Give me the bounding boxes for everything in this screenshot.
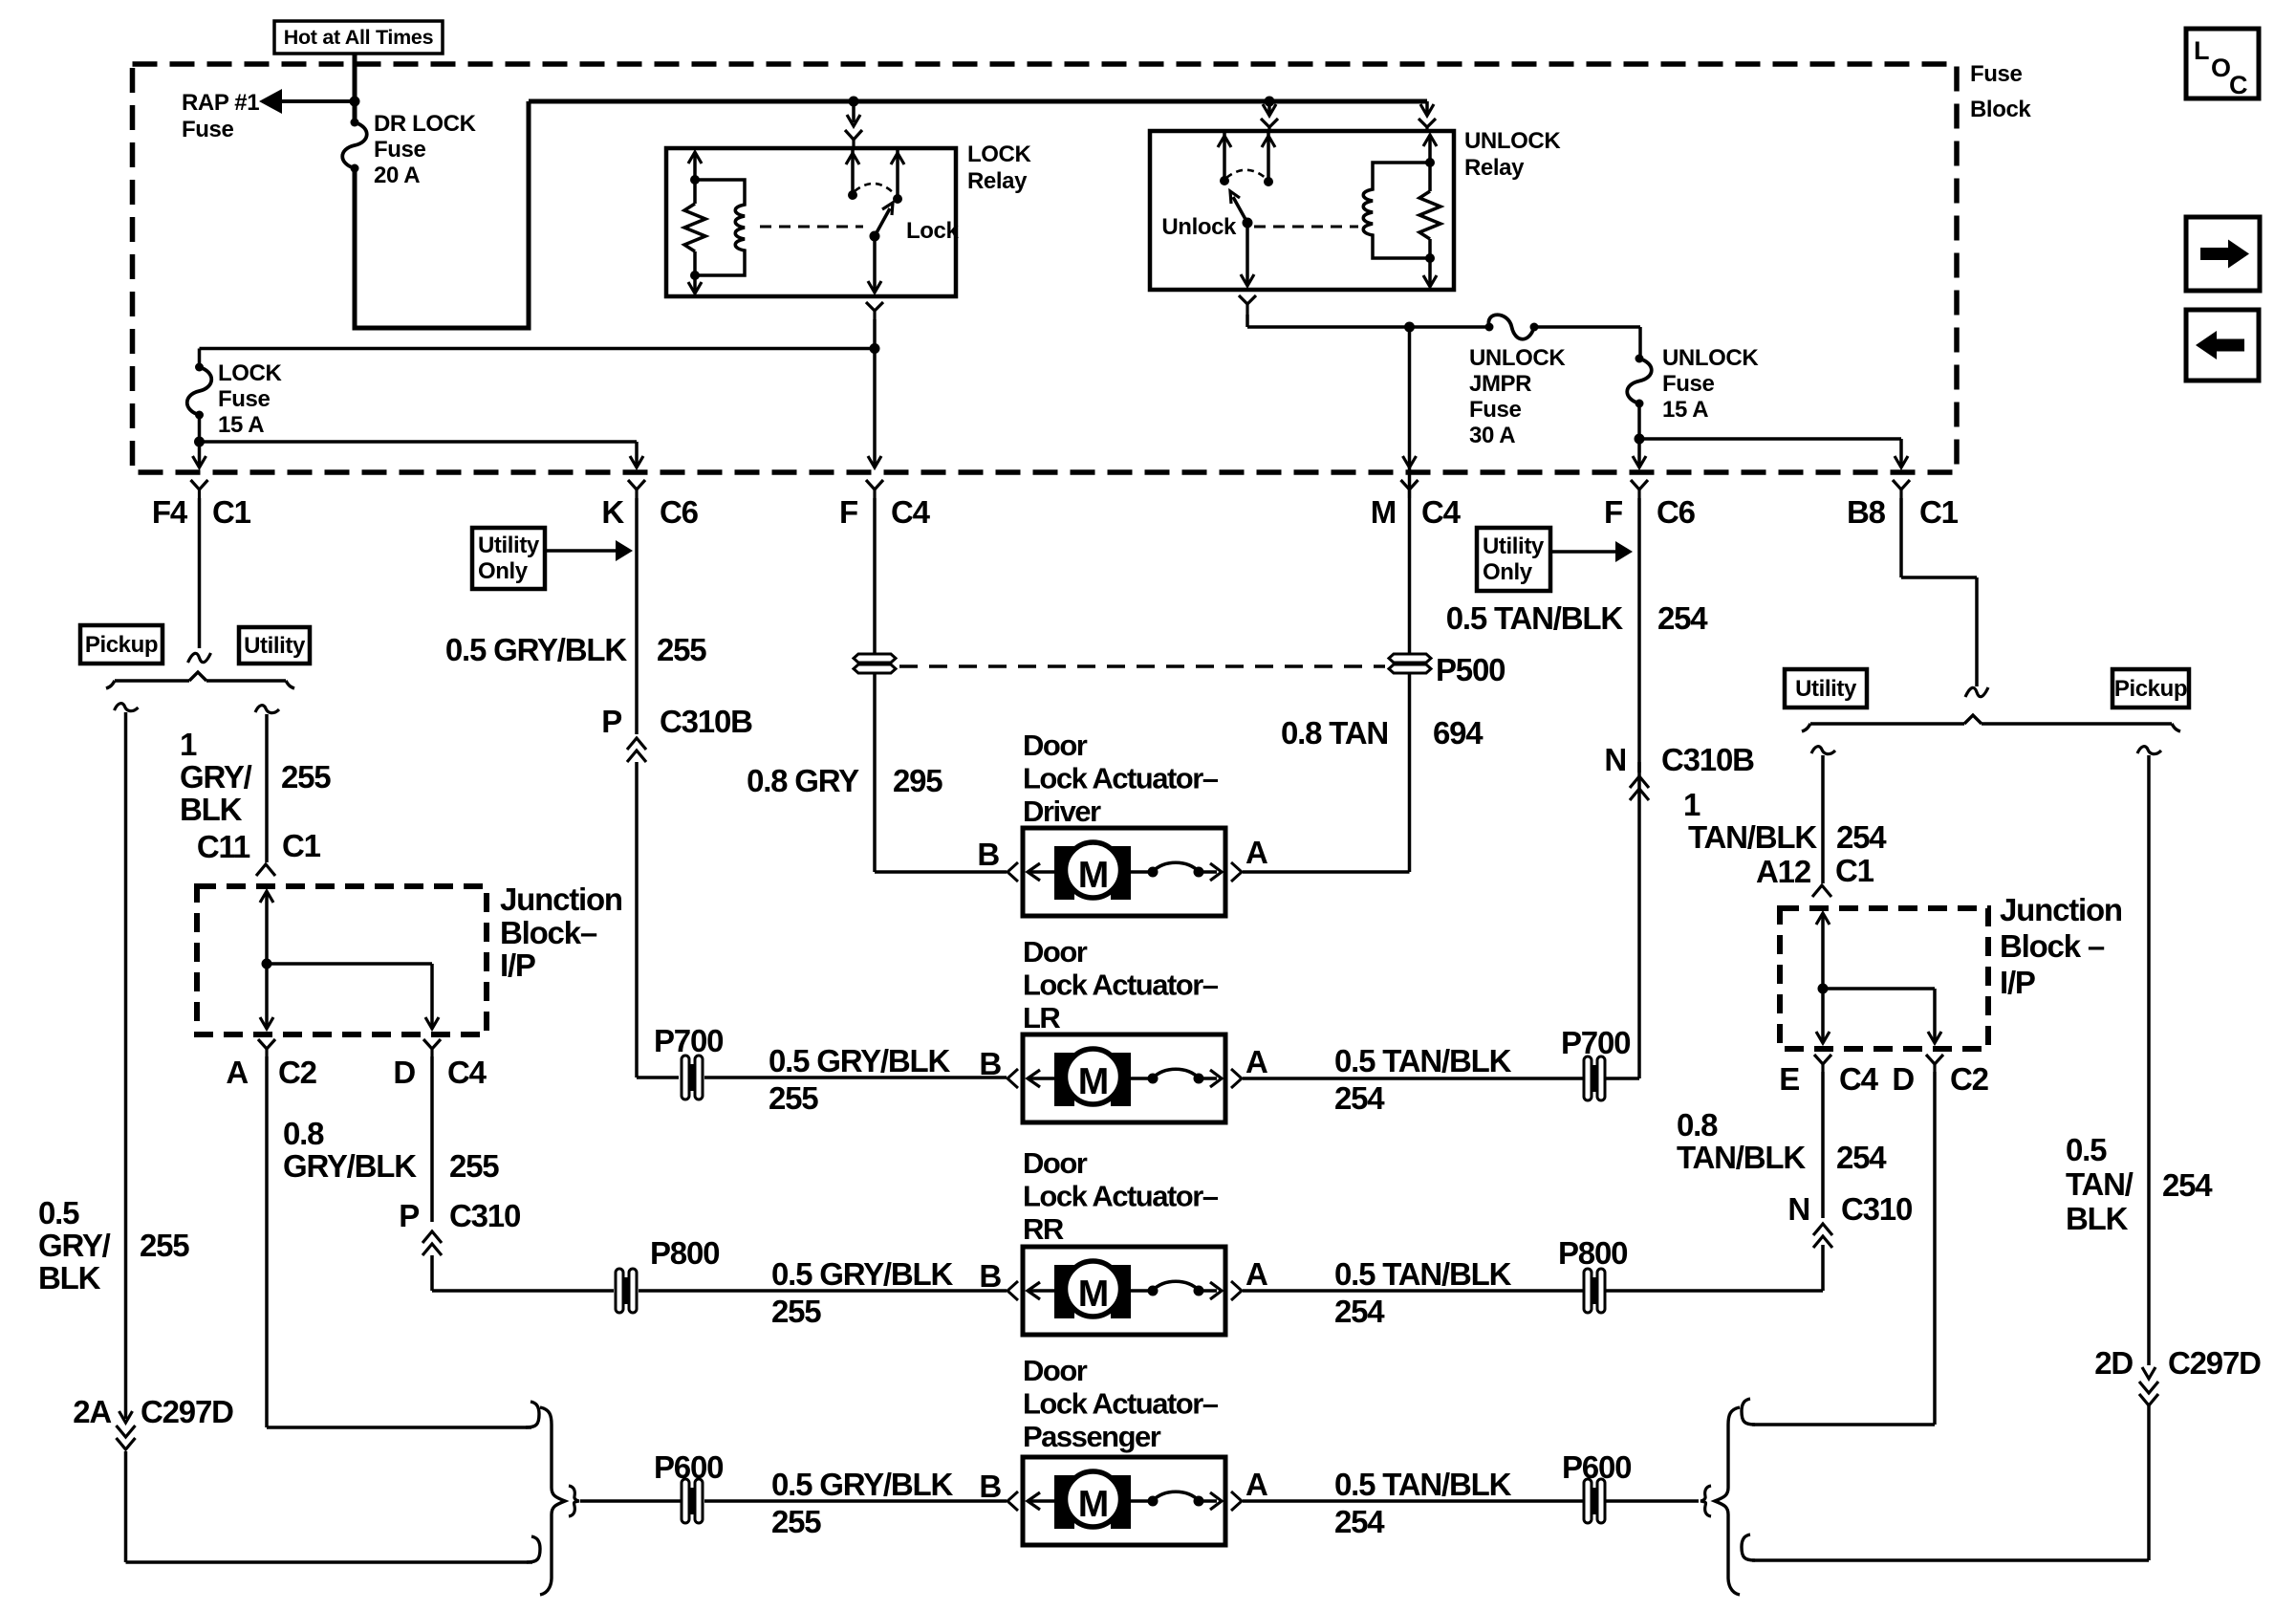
svg-text:2D: 2D xyxy=(2094,1345,2133,1381)
label: 0.5 TAN/BLK 254 (RR) xyxy=(1334,1256,1512,1329)
svg-text:Only: Only xyxy=(478,558,529,584)
svg-text:M: M xyxy=(1371,494,1396,530)
wire: F4 C1 down to split xyxy=(198,498,202,648)
svg-text:255: 255 xyxy=(449,1148,499,1184)
label: LOCK Fuse 15 A xyxy=(218,360,282,438)
svg-text:C11: C11 xyxy=(197,829,250,864)
node: junction block split (right) xyxy=(1818,984,1829,994)
svg-text:0.5 TAN/BLK: 0.5 TAN/BLK xyxy=(1334,1256,1512,1292)
svg-text:B: B xyxy=(979,1469,1001,1504)
connector C297D double chevron (right) xyxy=(2139,1382,2158,1405)
wire break squiggle (right split) xyxy=(1965,687,1988,697)
svg-text:Lock Actuator–: Lock Actuator– xyxy=(1023,762,1219,795)
svg-text:Pickup: Pickup xyxy=(2114,676,2187,702)
svg-text:694: 694 xyxy=(1433,715,1484,751)
lock relay switch arm xyxy=(870,203,894,242)
connector C310 double chevron (right) xyxy=(1813,1224,1832,1248)
label: F C4 xyxy=(839,494,931,530)
label: Unlock (switch position) xyxy=(1161,214,1237,240)
label: 0.5 TAN/BLK 254 (pickup right) xyxy=(2066,1132,2213,1236)
label: C11 C1 xyxy=(197,828,321,864)
wire: E C4 down to C310 xyxy=(1821,1072,1825,1218)
wire: lock feed horizontal xyxy=(200,347,876,351)
label: B8 C1 xyxy=(1847,494,1959,530)
label: 0.5 GRY/BLK 255 (RR) xyxy=(771,1256,953,1329)
relay box: UNLOCK Relay xyxy=(1150,131,1454,290)
connector terminal F C4 xyxy=(866,480,883,498)
svg-text:0.5 GRY/BLK: 0.5 GRY/BLK xyxy=(769,1043,950,1078)
wire: utility branch down xyxy=(265,714,269,862)
svg-text:Passenger: Passenger xyxy=(1023,1420,1161,1453)
gate P600 (left) xyxy=(682,1479,703,1523)
svg-text:Fuse: Fuse xyxy=(374,137,425,163)
wire: D C2 branch to bundle xyxy=(1752,1072,1935,1425)
svg-text:JMPR: JMPR xyxy=(1469,371,1531,397)
svg-text:0.5 GRY/BLK: 0.5 GRY/BLK xyxy=(771,1256,953,1292)
unlock relay resistor leg xyxy=(1419,135,1440,287)
grommet P500 (left) xyxy=(854,654,896,673)
svg-text:C1: C1 xyxy=(1835,853,1874,888)
svg-text:C310B: C310B xyxy=(1661,742,1754,777)
symbol: arrow-right reference box xyxy=(2186,217,2260,291)
node: lock relay tap xyxy=(849,97,859,107)
label: DR LOCK Fuse 20 A xyxy=(374,111,477,188)
svg-text:D: D xyxy=(1892,1061,1914,1097)
connector C310B double chevron (right) xyxy=(1630,776,1649,800)
unlock relay switch arm xyxy=(1230,191,1253,229)
symbol: L O C reference box xyxy=(2186,29,2259,99)
label: Door Lock Actuator RR xyxy=(1023,1146,1219,1246)
gate P800 (left) xyxy=(616,1269,637,1313)
grommet P500 (right) xyxy=(1389,654,1431,673)
wire: to M C4 exit xyxy=(1403,327,1417,468)
svg-text:LOCK: LOCK xyxy=(218,360,282,386)
wire: to RAP #1 fuse xyxy=(272,99,355,103)
label: 0.8 TAN/BLK 254 (right) xyxy=(1677,1107,1887,1175)
wire: P600 to passenger B xyxy=(704,1499,1007,1503)
label: M C4 xyxy=(1371,494,1462,530)
wire: battery feed into fuse block xyxy=(353,54,357,122)
connector C297D double chevron (left) xyxy=(117,1426,136,1449)
svg-text:Block–: Block– xyxy=(500,915,597,950)
unlock relay common leg xyxy=(1241,223,1254,286)
svg-text:Pickup: Pickup xyxy=(85,632,158,658)
terminal A (LR) xyxy=(1231,1044,1267,1088)
svg-text:2A: 2A xyxy=(73,1394,111,1429)
label: 0.5 TAN/BLK 254 (passenger) xyxy=(1334,1467,1512,1539)
svg-text:P500: P500 xyxy=(1436,652,1505,687)
hook: pickup arm (right brace) xyxy=(1742,1535,1755,1560)
terminal A (driver) xyxy=(1231,835,1267,882)
lock relay coil xyxy=(695,180,745,275)
svg-text:A: A xyxy=(1245,835,1267,870)
wire: P800 to RR B xyxy=(639,1289,1007,1293)
svg-text:15 A: 15 A xyxy=(218,412,264,438)
component: Door Lock Actuator Passenger xyxy=(1023,1457,1225,1545)
svg-text:D: D xyxy=(393,1055,415,1090)
label: Fuse Block xyxy=(1970,61,2031,122)
label: P700 (left) xyxy=(654,1023,723,1058)
node: lock fuse split xyxy=(194,437,205,447)
svg-text:Door: Door xyxy=(1023,935,1088,969)
terminal below LOCK relay xyxy=(866,302,883,319)
wire: D C4 branch down xyxy=(430,1056,434,1222)
wire: drop to LOCK relay xyxy=(847,101,860,126)
fuse: UNLOCK Fuse 15 A xyxy=(1627,355,1652,408)
label: 0.8 TAN 694 xyxy=(1281,715,1484,751)
svg-text:0.5: 0.5 xyxy=(2066,1132,2107,1167)
label: LOCK Relay xyxy=(967,142,1031,194)
svg-text:Relay: Relay xyxy=(967,168,1028,194)
box: Utility (left) xyxy=(239,627,310,664)
svg-text:P600: P600 xyxy=(654,1449,723,1485)
terminal B (RR) xyxy=(979,1258,1018,1300)
wire: below UNLOCK fuse xyxy=(1637,403,1641,439)
terminal B (LR) xyxy=(979,1046,1018,1088)
svg-text:0.5 TAN/BLK: 0.5 TAN/BLK xyxy=(1334,1043,1512,1078)
label: UNLOCK Relay xyxy=(1464,128,1561,181)
wire: P700 to LR B xyxy=(704,1076,1007,1079)
svg-text:Utility: Utility xyxy=(478,533,540,558)
bus split brace (left) xyxy=(106,672,294,688)
wire: UNLOCK relay output xyxy=(1247,315,1489,327)
svg-text:C297D: C297D xyxy=(141,1394,233,1429)
svg-text:Fuse: Fuse xyxy=(1469,397,1521,423)
junction block internal feed (right) xyxy=(1816,913,1830,1043)
wire: to F C6 exit xyxy=(1633,439,1646,468)
connector C11 C1 caret xyxy=(256,864,275,876)
svg-text:C6: C6 xyxy=(1657,494,1696,530)
wire: C310 to P800 row xyxy=(432,1255,614,1291)
fuse block boundary (dashed) xyxy=(133,64,1958,472)
label: 0.8 GRY 295 xyxy=(747,763,942,798)
label: P500 xyxy=(1436,652,1505,687)
wire: F C4 down to P500 xyxy=(873,498,877,654)
unlock relay switch terminal 1 xyxy=(1218,131,1231,185)
svg-text:RAP #1: RAP #1 xyxy=(182,90,259,116)
svg-text:255: 255 xyxy=(771,1504,821,1539)
wire: branch to K C6 exit xyxy=(200,442,644,468)
connector A12 C1 caret xyxy=(1812,885,1831,897)
label: 0.5 GRY/BLK 255 (LR) xyxy=(769,1043,950,1116)
wire: P700 right to C310B column xyxy=(1605,762,1639,1078)
svg-text:A: A xyxy=(1245,1044,1267,1079)
fuse: UNLOCK JMPR Fuse 30 A xyxy=(1485,315,1539,339)
svg-text:254: 254 xyxy=(1334,1080,1385,1116)
relay box: LOCK Relay xyxy=(666,148,956,296)
label: RAP #1 Fuse xyxy=(182,90,259,142)
wire break squiggle (left split) xyxy=(188,653,211,663)
svg-text:C4: C4 xyxy=(891,494,931,530)
node: RAP feed junction xyxy=(350,97,360,107)
svg-text:Door: Door xyxy=(1023,729,1088,762)
hook: pickup branch start xyxy=(115,704,139,711)
svg-text:A: A xyxy=(1245,1467,1267,1502)
label: P600 (left) xyxy=(654,1449,723,1485)
wire: C310B to LR row xyxy=(637,762,679,1078)
svg-text:Fuse: Fuse xyxy=(218,386,270,412)
wire: pickup branch to bundle xyxy=(126,1451,533,1562)
label: 2A C297D xyxy=(73,1394,233,1429)
wire: LOCK relay output down xyxy=(873,319,877,349)
box: Utility Only (left) xyxy=(472,528,545,589)
svg-text:A: A xyxy=(226,1055,248,1090)
wire: pickup branch down xyxy=(124,712,128,1367)
svg-text:DR LOCK: DR LOCK xyxy=(374,111,477,137)
label: UNLOCK JMPR Fuse 30 A xyxy=(1469,345,1566,448)
svg-text:P: P xyxy=(399,1198,419,1233)
svg-text:A: A xyxy=(1245,1256,1267,1292)
node: lock output junction xyxy=(870,343,880,354)
svg-text:Junction: Junction xyxy=(2000,892,2122,927)
svg-text:UNLOCK: UNLOCK xyxy=(1662,345,1759,371)
svg-text:F: F xyxy=(839,494,857,530)
svg-text:C297D: C297D xyxy=(2168,1345,2261,1381)
svg-text:1: 1 xyxy=(180,727,197,762)
svg-text:Block: Block xyxy=(1970,97,2031,122)
svg-text:0.8: 0.8 xyxy=(283,1116,324,1151)
junction block I/P box (left, dashed) xyxy=(197,886,487,1034)
svg-text:0.8: 0.8 xyxy=(1677,1107,1718,1143)
svg-text:C1: C1 xyxy=(212,494,251,530)
svg-text:E: E xyxy=(1779,1061,1799,1097)
hook: utility branch start xyxy=(255,706,279,713)
dashed throw arc (unlock relay) xyxy=(1226,170,1267,179)
dashed actuation link (unlock) xyxy=(1254,226,1358,229)
arrow: Utility Only to K C6 wire xyxy=(545,540,633,561)
box: Pickup (right) xyxy=(2112,669,2189,708)
svg-text:Utility: Utility xyxy=(244,633,306,659)
wire: RR A to P800 right xyxy=(1243,1289,1583,1293)
terminal E C4 xyxy=(1814,1055,1831,1072)
junction block internal feed xyxy=(260,891,273,1029)
svg-text:M: M xyxy=(1078,1274,1110,1315)
svg-text:C310: C310 xyxy=(449,1198,520,1233)
svg-text:0.5 TAN/BLK: 0.5 TAN/BLK xyxy=(1446,600,1624,636)
svg-text:C2: C2 xyxy=(1950,1061,1989,1097)
label: 1 TAN/BLK 254 xyxy=(1683,787,1887,855)
svg-text:Fuse: Fuse xyxy=(1970,61,2022,87)
svg-text:Door: Door xyxy=(1023,1146,1088,1180)
wire: pickup branch down (right) xyxy=(2147,755,2151,1365)
svg-text:BLK: BLK xyxy=(38,1260,101,1295)
svg-text:254: 254 xyxy=(1334,1294,1385,1329)
wire: F C6 down to C310B xyxy=(1637,498,1641,773)
terminal into LOCK relay xyxy=(845,130,862,148)
bundle input hook (bottom right) xyxy=(1700,1486,1711,1516)
svg-text:C1: C1 xyxy=(1919,494,1959,530)
svg-text:0.5 TAN/BLK: 0.5 TAN/BLK xyxy=(1334,1467,1512,1502)
svg-text:F4: F4 xyxy=(152,494,188,530)
svg-text:F: F xyxy=(1604,494,1622,530)
svg-text:1: 1 xyxy=(1683,787,1700,822)
wire: bundle to P600 left xyxy=(580,1499,681,1503)
dashed actuation link (lock) xyxy=(760,226,863,229)
label: P800 (right) xyxy=(1558,1235,1627,1271)
lock relay switch terminal 1 xyxy=(846,148,859,200)
svg-text:C310: C310 xyxy=(1841,1191,1912,1227)
svg-text:O: O xyxy=(2211,54,2231,82)
lock relay coil supply leg with resistor xyxy=(684,152,705,294)
svg-text:N: N xyxy=(1787,1191,1809,1227)
junction block internal branch xyxy=(267,964,439,1029)
unlock relay coil xyxy=(1363,163,1430,258)
svg-text:N: N xyxy=(1604,742,1626,777)
svg-text:B: B xyxy=(977,837,999,872)
svg-text:P: P xyxy=(601,704,621,739)
svg-text:255: 255 xyxy=(657,632,706,667)
label: 0.5 GRY/BLK 255 (pickup) xyxy=(38,1195,189,1295)
label: 0.5 TAN/BLK 254 (LR) xyxy=(1334,1043,1512,1116)
svg-text:LR: LR xyxy=(1023,1001,1060,1034)
svg-text:255: 255 xyxy=(771,1294,821,1329)
svg-text:C4: C4 xyxy=(1839,1061,1879,1097)
svg-text:Driver: Driver xyxy=(1023,795,1101,828)
svg-text:C4: C4 xyxy=(1421,494,1462,530)
svg-text:295: 295 xyxy=(893,763,942,798)
box: Utility Only (right) xyxy=(1477,528,1550,591)
svg-text:Utility: Utility xyxy=(1483,533,1545,559)
svg-text:I/P: I/P xyxy=(2000,965,2035,1000)
label: E C4 D C2 xyxy=(1779,1061,1988,1097)
wire: utility branch down (right) xyxy=(1821,755,1825,883)
svg-text:B: B xyxy=(979,1258,1001,1294)
svg-text:Hot at All Times: Hot at All Times xyxy=(284,26,434,49)
bus split brace (right) xyxy=(1802,715,2180,731)
svg-text:C: C xyxy=(2229,71,2248,99)
hook: pickup wire end xyxy=(527,1536,540,1562)
svg-text:K: K xyxy=(601,494,624,530)
svg-text:20 A: 20 A xyxy=(374,163,420,188)
svg-text:Door: Door xyxy=(1023,1354,1088,1387)
wire arrow into C297D (right) xyxy=(2142,1367,2155,1379)
label: 0.5 GRY/BLK 255 (passenger) xyxy=(771,1467,953,1539)
hook: pickup branch start (right) xyxy=(2137,747,2161,754)
label: A C2 xyxy=(226,1055,316,1090)
arrow: Utility Only to F C6 wire xyxy=(1550,541,1633,562)
dashed throw arc (lock relay) xyxy=(855,184,894,193)
wire: passenger A to P600 right xyxy=(1243,1499,1583,1503)
box: Utility (right) xyxy=(1785,669,1867,708)
arrow to RAP #1 fuse xyxy=(259,89,282,114)
connector terminal F4 C1 xyxy=(191,480,208,498)
connector terminal K C6 xyxy=(628,480,645,498)
svg-text:GRY/: GRY/ xyxy=(38,1228,111,1263)
label: 0.5 GRY/BLK 255 (K C6) xyxy=(445,632,706,667)
label: 1 GRY/BLK 255 (utility) xyxy=(180,727,331,827)
svg-text:C310B: C310B xyxy=(660,704,752,739)
junction block I/P box (right, dashed) xyxy=(1780,908,1988,1049)
label: F4 C1 xyxy=(152,494,251,530)
connector C310 double chevron (left) xyxy=(422,1231,442,1255)
connector terminal F C6 xyxy=(1631,480,1648,498)
label: P700 (right) xyxy=(1561,1025,1630,1060)
svg-text:BLK: BLK xyxy=(180,792,243,827)
wire: below LOCK fuse xyxy=(198,415,202,442)
wire: branch to B8 C1 exit xyxy=(1639,439,1908,468)
connector C310B double chevron (left) xyxy=(627,738,646,762)
connector terminal B8 C1 xyxy=(1893,480,1910,498)
wire: pickup right to bundle xyxy=(1752,1405,2149,1560)
terminal into UNLOCK relay pin1 xyxy=(1261,119,1278,131)
svg-text:254: 254 xyxy=(1836,1140,1887,1175)
label: K C6 xyxy=(601,494,698,530)
component: Door Lock Actuator Driver xyxy=(1023,828,1225,916)
label: Lock (switch position) xyxy=(906,218,959,244)
label: P C310B xyxy=(601,704,752,739)
box: Pickup (left) xyxy=(80,625,162,664)
symbol: arrow-left reference box xyxy=(2186,310,2259,381)
hook: D C2 arm (right brace) xyxy=(1742,1399,1755,1425)
svg-text:M: M xyxy=(1078,1484,1110,1525)
svg-text:15 A: 15 A xyxy=(1662,397,1708,423)
svg-text:255: 255 xyxy=(769,1080,818,1116)
node: M C4 tap xyxy=(1404,322,1415,333)
svg-text:GRY/BLK: GRY/BLK xyxy=(283,1148,417,1184)
svg-text:Relay: Relay xyxy=(1464,155,1525,181)
connector terminal M C4 xyxy=(1401,480,1419,498)
wire: K C6 down xyxy=(635,498,639,734)
svg-text:0.8 TAN: 0.8 TAN xyxy=(1281,715,1388,751)
fuse: DR LOCK Fuse 20 A xyxy=(342,119,367,173)
svg-text:0.5: 0.5 xyxy=(38,1195,79,1230)
gate P700 (right) xyxy=(1584,1056,1605,1100)
svg-text:UNLOCK: UNLOCK xyxy=(1464,128,1561,154)
svg-text:I/P: I/P xyxy=(500,947,535,983)
node: junction block split (left) xyxy=(262,959,272,969)
svg-text:Utility: Utility xyxy=(1795,676,1857,702)
node: unlock fuse split xyxy=(1635,434,1645,445)
hook: utility branch start (right) xyxy=(1811,747,1835,754)
svg-text:255: 255 xyxy=(281,759,331,795)
svg-text:30 A: 30 A xyxy=(1469,423,1515,448)
svg-text:GRY/: GRY/ xyxy=(180,759,252,795)
svg-text:255: 255 xyxy=(140,1228,189,1263)
svg-text:TAN/: TAN/ xyxy=(2066,1166,2134,1202)
wire: JMPR fuse to UNLOCK fuse xyxy=(1534,327,1640,359)
svg-text:Junction: Junction xyxy=(500,882,622,917)
svg-text:P800: P800 xyxy=(1558,1235,1627,1271)
wire: relay output to F C4 exit xyxy=(868,349,881,468)
terminal below UNLOCK relay xyxy=(1239,295,1256,315)
component: Door Lock Actuator LR xyxy=(1023,1034,1225,1122)
svg-text:Block –: Block – xyxy=(2000,928,2105,964)
svg-text:TAN/BLK: TAN/BLK xyxy=(1688,819,1817,855)
svg-text:254: 254 xyxy=(1657,600,1708,636)
label: Junction Block I/P (right) xyxy=(2000,892,2122,1000)
wire: top bus to relays xyxy=(529,99,1427,104)
wire: P600 right to bundle xyxy=(1605,1499,1699,1503)
wire: bus corner to UNLOCK relay pin2 xyxy=(1420,101,1434,116)
svg-text:Lock Actuator–: Lock Actuator– xyxy=(1023,969,1219,1002)
wire: DR LOCK fuse to bus riser xyxy=(355,101,529,328)
wire arrow into C297D (left) xyxy=(119,1367,133,1423)
svg-text:Lock Actuator–: Lock Actuator– xyxy=(1023,1387,1219,1421)
wire: drop to UNLOCK relay pin1 xyxy=(1263,101,1276,116)
svg-text:Unlock: Unlock xyxy=(1161,214,1237,240)
terminal B (passenger) xyxy=(979,1469,1018,1511)
label: N C310 (right) xyxy=(1787,1191,1912,1227)
lock relay switch terminal 2 xyxy=(891,148,904,204)
svg-text:P700: P700 xyxy=(1561,1025,1630,1060)
svg-text:P600: P600 xyxy=(1562,1449,1631,1485)
box: Hot at All Times xyxy=(274,21,443,54)
terminal A (passenger) xyxy=(1231,1467,1267,1511)
svg-text:Fuse: Fuse xyxy=(1662,371,1714,397)
label: A12 C1 xyxy=(1756,853,1874,889)
hook: A C2 wire end xyxy=(526,1402,539,1427)
label: D C4 xyxy=(393,1055,487,1090)
